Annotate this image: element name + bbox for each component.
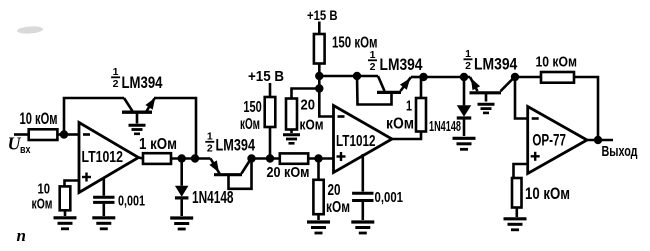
svg-text:1 кОм: 1 кОм [139, 136, 177, 153]
resistor R6 20kOm to gnd [317, 159, 320, 180]
wire opamp2 output [392, 132, 421, 140]
wire Q1 emitter to node B [154, 98, 196, 159]
resistor R5 150kOm [265, 97, 276, 127]
transistor Q4 half LM394 [470, 91, 502, 94]
resistor R11 10kOm to gnd [512, 178, 522, 208]
wire node K to R10 [515, 76, 541, 79]
node B diode junction [178, 154, 186, 162]
scan smudge [17, 26, 43, 35]
svg-text:LM394: LM394 [122, 74, 164, 92]
svg-text:LM394: LM394 [380, 56, 424, 74]
svg-text:2: 2 [370, 61, 376, 73]
op-amp U1 LT1012 [79, 123, 139, 193]
wire opamp1 plus input [65, 181, 80, 187]
node F rail2 [315, 72, 323, 80]
node I R9 top [419, 73, 427, 81]
wire output [587, 139, 613, 142]
svg-text:1N4148: 1N4148 [192, 187, 234, 207]
node E opamp2 plus [314, 154, 322, 162]
svg-text:10 кОм: 10 кОм [536, 54, 578, 70]
svg-text:1: 1 [207, 131, 213, 143]
capacitor C2 0.001 [361, 154, 364, 192]
svg-text:LM394: LM394 [474, 56, 518, 74]
op-amp U2 LT1012 [334, 106, 393, 173]
ground Q4 base [478, 103, 495, 106]
svg-text:1: 1 [406, 98, 412, 115]
svg-text:20 кОм: 20 кОм [267, 164, 310, 181]
svg-text:+15 В: +15 В [307, 7, 338, 23]
resistor R4 20kOm horizontal [280, 153, 308, 163]
svg-text:20: 20 [301, 97, 316, 114]
node H Q3 collector [353, 72, 361, 80]
resistor R3 1kOm [139, 158, 144, 159]
svg-text:0,001: 0,001 [375, 189, 404, 206]
svg-text:1: 1 [370, 49, 376, 61]
svg-text:ОР-77: ОР-77 [532, 132, 566, 150]
svg-text:Выход: Выход [602, 143, 638, 160]
svg-text:кОм: кОм [326, 199, 350, 216]
transistor Q2 half LM394 [214, 173, 242, 176]
wire rail2 [319, 75, 378, 78]
wire minus branch vertical [318, 76, 321, 89]
ground R6 [307, 220, 330, 223]
node input wire [14, 133, 29, 136]
node feedback junction [191, 154, 199, 162]
wire node C to R4 [252, 157, 280, 160]
wire rail3 [424, 76, 471, 79]
svg-text:10 кОм: 10 кОм [525, 184, 570, 203]
capacitor C1 0.001 [103, 177, 106, 196]
wire node G to opamp2 minus [319, 89, 333, 117]
svg-text:п: п [17, 226, 26, 245]
resistor R10 10kOm feedback [541, 72, 574, 83]
svg-text:вх: вх [20, 144, 31, 156]
resistor R2 10kOm to gnd [60, 186, 71, 210]
svg-text:1: 1 [113, 66, 119, 78]
svg-text:10 кОм: 10 кОм [20, 109, 58, 128]
wire +15V left [269, 83, 272, 97]
resistor R8 20kOm to gnd [286, 99, 297, 130]
ground VD1 [170, 216, 193, 219]
ground R11 [504, 217, 527, 220]
transistor Q1 half LM394 [122, 110, 152, 113]
svg-text:1: 1 [465, 48, 471, 60]
svg-text:150: 150 [243, 99, 261, 116]
svg-text:1N4148: 1N4148 [429, 118, 461, 135]
ground VD2 [453, 137, 476, 140]
wire rail3 left [411, 76, 424, 79]
resistor R7 150kOm top [314, 34, 325, 64]
svg-text:20: 20 [328, 182, 341, 199]
wire node G to R8 [292, 89, 320, 99]
svg-text:2: 2 [207, 143, 213, 155]
ground C2 [351, 220, 374, 223]
svg-text:кОм: кОм [32, 196, 53, 213]
node G minus branch [315, 84, 323, 92]
svg-text:LT1012: LT1012 [336, 133, 376, 150]
node L output [594, 136, 602, 144]
diode VD1 1N4148 [180, 159, 183, 186]
ground R8 [283, 133, 300, 136]
svg-text:2: 2 [113, 78, 119, 90]
svg-text:2: 2 [465, 60, 471, 72]
ground R2 [54, 216, 77, 219]
wire feedback stage1 [64, 98, 124, 135]
node J diode2 [460, 73, 468, 81]
svg-text:+15 В: +15 В [248, 68, 284, 85]
wire node A to opamp1 [64, 133, 79, 136]
svg-text:LM394: LM394 [216, 136, 256, 154]
node C stage2 rail [247, 154, 255, 162]
op-amp U3 OP-77 [528, 107, 587, 174]
svg-text:кОм: кОм [386, 116, 414, 133]
resistor R9 1kOm vertical [416, 98, 426, 132]
wire node K to opamp3 minus [515, 77, 528, 119]
svg-text:LT1012: LT1012 [82, 149, 124, 166]
transistor Q3 half LM394 [377, 91, 401, 94]
svg-text:0,001: 0,001 [118, 193, 145, 210]
ground C1 [92, 216, 115, 219]
svg-text:кОм: кОм [240, 116, 260, 133]
resistor R1 10kOm input [29, 129, 58, 140]
wire opamp3 plus input [514, 164, 528, 178]
wire +15V top [318, 22, 321, 35]
node A summing junction [60, 130, 68, 138]
svg-text:кОм: кОм [300, 117, 324, 134]
node D 150k drop [266, 154, 274, 162]
diode VD2 1N4148 [463, 77, 466, 105]
node K opamp3 minus [511, 73, 519, 81]
ground Q1 base [129, 124, 146, 127]
